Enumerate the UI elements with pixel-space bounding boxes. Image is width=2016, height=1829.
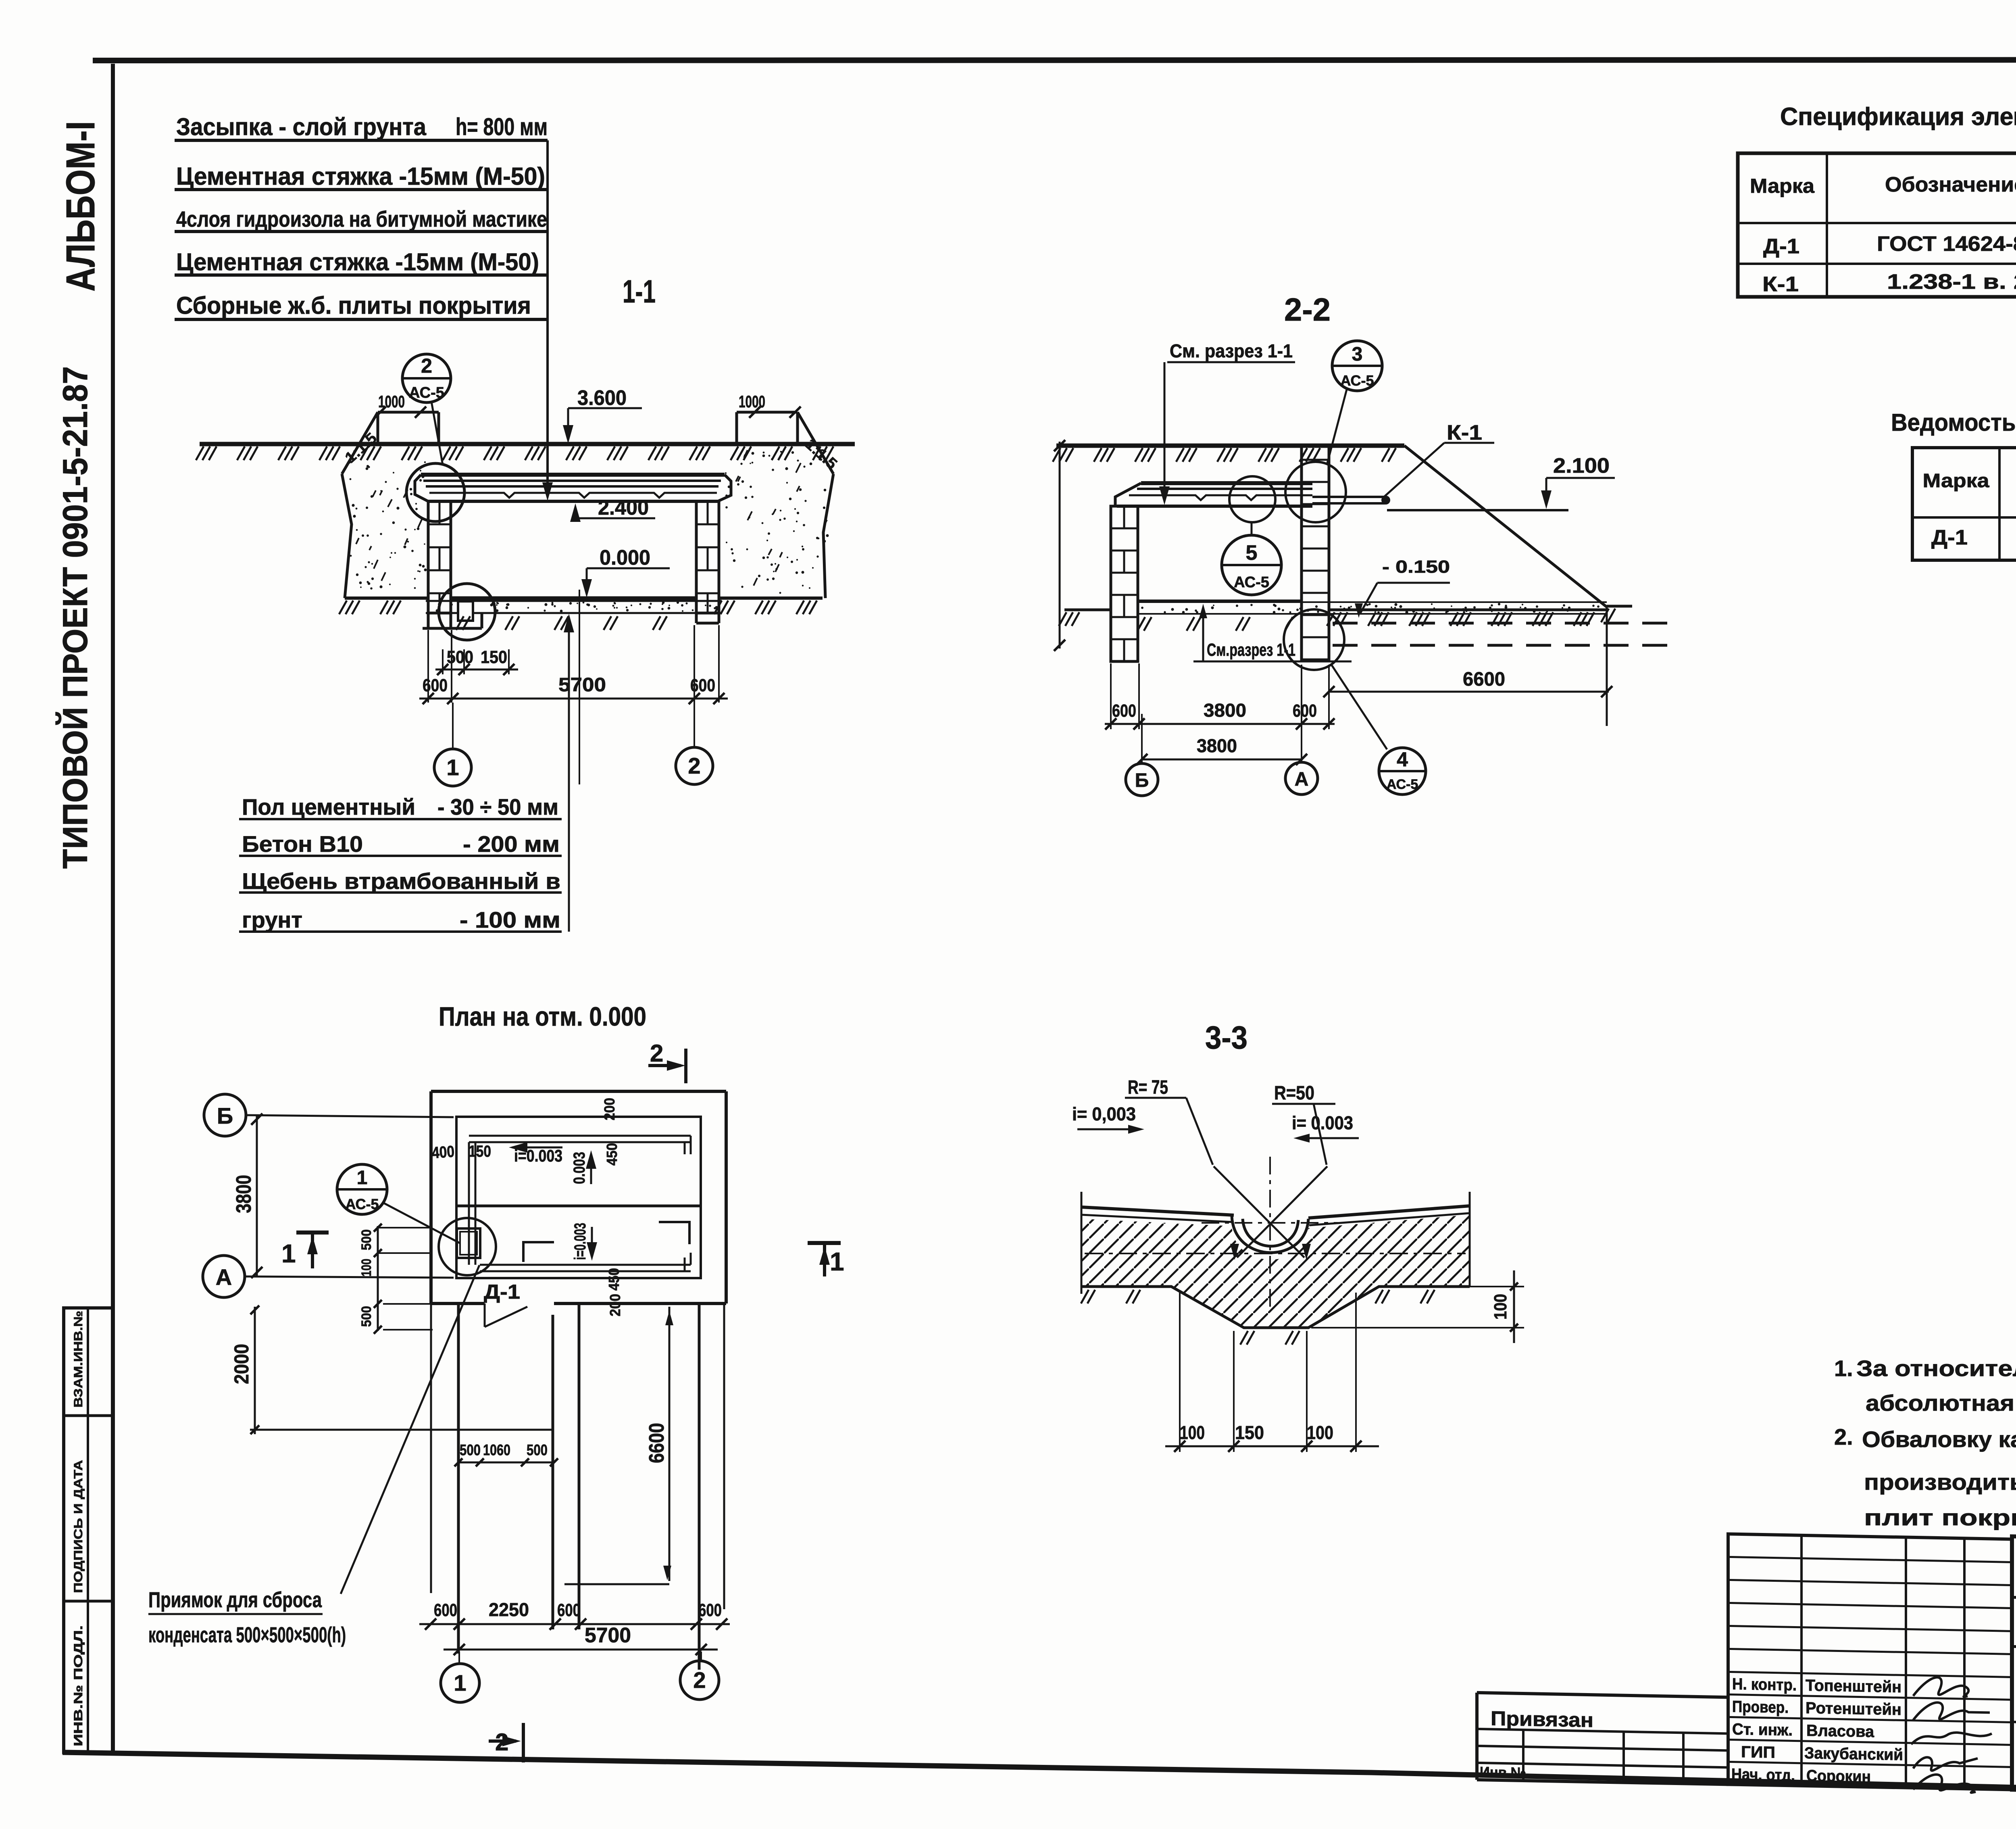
svg-text:Н. контр.: Н. контр. bbox=[1732, 1675, 1797, 1694]
svg-text:- 0.150: - 0.150 bbox=[1382, 557, 1450, 577]
section 1-1 right berm with 1000 dim bbox=[737, 411, 798, 414]
svg-text:К-1: К-1 bbox=[1762, 273, 1799, 296]
3-3 channel inner arc bbox=[1243, 1219, 1298, 1246]
plan left dim stack 500-100-500 bbox=[377, 1227, 433, 1228]
svg-text:500: 500 bbox=[359, 1229, 374, 1250]
margin stamp boxes bottom-left bbox=[64, 1308, 113, 1752]
svg-text:1-1: 1-1 bbox=[623, 273, 656, 309]
plan axis circle 2 bbox=[700, 1652, 702, 1662]
section 1-1 left berm with 1000 dim bbox=[378, 411, 439, 414]
3-3 bottom dims 100-150-100 bbox=[1085, 1253, 1466, 1254]
svg-text:А: А bbox=[216, 1264, 232, 1290]
plan axis circle 1 bbox=[458, 1652, 460, 1664]
svg-text:Д-1: Д-1 bbox=[484, 1281, 520, 1303]
svg-text:500: 500 bbox=[527, 1442, 548, 1459]
section 1-1 floor slab band bbox=[426, 600, 722, 602]
plan sump pit bbox=[457, 1228, 480, 1258]
svg-text:плит покрытия.: плит покрытия. bbox=[1864, 1505, 2016, 1530]
2-2 canopy K-1 bbox=[1312, 496, 1385, 498]
svg-text:За относительную: За относительную bbox=[1856, 1356, 2016, 1381]
svg-text:Ведомость проемов дверей: Ведомость проемов дверей bbox=[1891, 409, 2016, 436]
svg-text:450: 450 bbox=[606, 1268, 622, 1291]
2-2 outside grade left bbox=[1064, 609, 1110, 611]
svg-text:Д-1: Д-1 bbox=[1931, 526, 1968, 549]
plan inner wall faces bbox=[456, 1117, 701, 1278]
svg-text:Обваловку камеры фильтров: Обваловку камеры фильтров - поглотителей bbox=[1862, 1426, 2016, 1452]
plan corner mark lower-left bbox=[523, 1242, 554, 1262]
svg-text:150: 150 bbox=[481, 647, 507, 667]
svg-text:400: 400 bbox=[431, 1143, 455, 1162]
section 1-1 soil speckles left bbox=[403, 545, 406, 548]
callout leader vertical line bbox=[546, 140, 549, 495]
plan axis A circle bbox=[203, 1255, 245, 1297]
2-2 slope toe vertical bbox=[1606, 607, 1608, 726]
svg-text:абсолютная отм.: абсолютная отм. bbox=[1866, 1390, 2016, 1416]
2-2 level line 2.100 bbox=[1387, 509, 1568, 511]
3-3 right slab top bbox=[1308, 1206, 1470, 1218]
svg-text:3: 3 bbox=[1352, 344, 1363, 365]
section 1-1 roof slab bbox=[421, 473, 725, 477]
2-2 axis circle A bbox=[1285, 762, 1318, 795]
plan bottom dim row 600-2250-600-600 bbox=[419, 1623, 730, 1625]
svg-text:- 30 ÷ 50 мм: - 30 ÷ 50 мм bbox=[437, 794, 558, 820]
dim row 500-150 bbox=[442, 649, 444, 674]
2-2 embankment slope line bbox=[1404, 446, 1607, 607]
svg-text:ПОДПИСЬ И ДАТА: ПОДПИСЬ И ДАТА bbox=[72, 1460, 85, 1593]
svg-text:5700: 5700 bbox=[558, 674, 606, 696]
svg-text:600: 600 bbox=[1112, 701, 1136, 721]
svg-text:450: 450 bbox=[604, 1143, 620, 1166]
svg-text:2000: 2000 bbox=[230, 1344, 253, 1384]
detail circle 3 target at wall top bbox=[1285, 462, 1346, 522]
svg-text:600: 600 bbox=[557, 1600, 581, 1620]
floor list leader bbox=[568, 617, 570, 932]
svg-text:1.: 1. bbox=[1834, 1356, 1853, 1381]
section 1-1 soil edge left bbox=[342, 474, 352, 598]
plan channel top bbox=[469, 1135, 691, 1137]
2-2 buried slab dashed lines bbox=[1333, 622, 1673, 625]
detail circle at roof corner bbox=[406, 463, 464, 521]
sump note leader bbox=[341, 1265, 479, 1594]
svg-text:Закубанский: Закубанский bbox=[1804, 1744, 1903, 1764]
detail circle at footing bbox=[439, 584, 495, 640]
svg-text:Топенштейн: Топенштейн bbox=[1806, 1677, 1901, 1696]
svg-text:АС-5: АС-5 bbox=[1234, 574, 1269, 591]
plan channel left riser bbox=[468, 1142, 470, 1265]
svg-text:2.400: 2.400 bbox=[598, 496, 649, 519]
signatures cursive bbox=[1913, 1677, 1968, 1697]
svg-text:А: А bbox=[1295, 769, 1309, 790]
svg-text:К-1: К-1 bbox=[1447, 421, 1482, 444]
svg-text:1: 1 bbox=[281, 1239, 296, 1268]
plan corner mark lower-right bbox=[659, 1222, 689, 1244]
svg-text:i=0.003: i=0.003 bbox=[571, 1223, 589, 1260]
svg-text:1: 1 bbox=[446, 755, 459, 780]
svg-text:100: 100 bbox=[359, 1259, 374, 1276]
2-2 interior floor bbox=[1138, 600, 1302, 603]
svg-text:0.000: 0.000 bbox=[600, 546, 650, 569]
svg-text:150: 150 bbox=[1235, 1422, 1264, 1443]
plan sump detail circle bbox=[439, 1218, 496, 1275]
sheet frame top border bbox=[93, 60, 2016, 60]
svg-text:1: 1 bbox=[357, 1167, 368, 1189]
detail mark 1/AC-5 on plan bbox=[337, 1164, 387, 1214]
section 1-1 soil edge right bbox=[823, 474, 833, 598]
svg-text:Б: Б bbox=[217, 1103, 233, 1128]
svg-text:Засыпка - слой грунта: Засыпка - слой грунта bbox=[176, 113, 427, 140]
2-2 floor slab band bbox=[1138, 601, 1607, 603]
svg-text:150: 150 bbox=[469, 1143, 491, 1160]
svg-text:- 200 мм: - 200 мм bbox=[463, 831, 560, 857]
section 1-1 right footing bbox=[695, 613, 698, 623]
svg-text:АС-5: АС-5 bbox=[1387, 777, 1418, 792]
svg-text:ГОСТ 14624-84: ГОСТ 14624-84 bbox=[1877, 232, 2016, 256]
svg-text:Нач. отд.: Нач. отд. bbox=[1731, 1766, 1795, 1785]
svg-text:600: 600 bbox=[1293, 701, 1317, 721]
plan axis B circle bbox=[204, 1094, 246, 1136]
plan section mark 1 left bbox=[296, 1230, 329, 1235]
dim row 600-5700-600 bbox=[427, 630, 429, 703]
svg-text:- 100 мм: - 100 мм bbox=[460, 907, 560, 932]
svg-text:3800: 3800 bbox=[1204, 700, 1246, 721]
svg-text:2: 2 bbox=[693, 1667, 706, 1693]
svg-text:Обозначение: Обозначение bbox=[1885, 173, 2016, 196]
3-3 hatch fill area bbox=[1081, 1215, 1470, 1328]
svg-text:600: 600 bbox=[698, 1600, 722, 1620]
svg-text:АС-5: АС-5 bbox=[1340, 372, 1374, 389]
2-2 subfloor hatch bbox=[1137, 617, 1145, 631]
detail circle 4 target at wall base bbox=[1284, 609, 1344, 670]
svg-text:Ротенштейн: Ротенштейн bbox=[1806, 1699, 1901, 1718]
svg-text:3-3: 3-3 bbox=[1205, 1020, 1248, 1055]
plan section mark 1 right bbox=[808, 1241, 841, 1245]
2-2 axis dim 3800 bbox=[1141, 714, 1143, 762]
detail mark 3/AC-5 bbox=[1332, 341, 1382, 391]
svg-text:Б: Б bbox=[1135, 770, 1149, 791]
svg-text:АС-5: АС-5 bbox=[409, 384, 444, 401]
svg-text:2: 2 bbox=[421, 355, 432, 377]
svg-text:ИНВ.№ ПОДЛ.: ИНВ.№ ПОДЛ. bbox=[72, 1625, 85, 1746]
svg-text:5: 5 bbox=[1246, 541, 1258, 565]
svg-text:Цементная стяжка -15мм (М-50): Цементная стяжка -15мм (М-50) bbox=[176, 248, 539, 275]
plan corridor walls bbox=[457, 1303, 460, 1654]
door table frame bbox=[1912, 448, 2016, 560]
svg-text:Цементная стяжка -15мм (М-50): Цементная стяжка -15мм (М-50) bbox=[176, 163, 545, 190]
svg-text:3.600: 3.600 bbox=[577, 386, 627, 410]
axis circle 2 section 1-1 bbox=[694, 703, 695, 747]
svg-text:6600: 6600 bbox=[1463, 669, 1505, 690]
plan outer walls bbox=[431, 1090, 726, 1093]
3-3 centre crosshair bbox=[1269, 1157, 1271, 1312]
svg-text:6600: 6600 bbox=[645, 1423, 669, 1463]
svg-text:i= 0,003: i= 0,003 bbox=[1072, 1103, 1136, 1124]
3-3 right edge bar bbox=[1469, 1192, 1471, 1287]
section 1-1 centre line bbox=[579, 590, 580, 784]
svg-text:2250: 2250 bbox=[489, 1599, 529, 1620]
svg-text:Марка: Марка bbox=[1923, 470, 1989, 492]
svg-text:2-2: 2-2 bbox=[1284, 292, 1331, 327]
svg-text:конденсата 500×500×500(h): конденсата 500×500×500(h) bbox=[148, 1623, 346, 1647]
svg-text:1.238-1 в. 2: 1.238-1 в. 2 bbox=[1887, 270, 2016, 294]
svg-text:См. разрез 1-1: См. разрез 1-1 bbox=[1170, 340, 1293, 361]
svg-text:2.100: 2.100 bbox=[1553, 454, 1610, 478]
svg-text:1060: 1060 bbox=[483, 1442, 510, 1459]
plan dim row 500-1060-500 bbox=[458, 1462, 554, 1464]
svg-text:100: 100 bbox=[1491, 1294, 1510, 1320]
sheet frame bottom border bbox=[62, 1752, 2016, 1800]
svg-text:Д-1: Д-1 bbox=[1763, 235, 1799, 258]
detail mark 5/AC-5 bbox=[1251, 522, 1253, 536]
3-3 left edge bar bbox=[1081, 1192, 1083, 1294]
3-3 left slab top bbox=[1081, 1207, 1234, 1215]
3-3 dim 100 right bbox=[1383, 1286, 1524, 1287]
svg-text:ТИПОВОЙ ПРОЕКТ 0901-5-21.87: ТИПОВОЙ ПРОЕКТ 0901-5-21.87 bbox=[56, 366, 95, 869]
3-3 radius diagonal left bbox=[1214, 1166, 1304, 1258]
section 1-1 right wall brick bbox=[696, 501, 719, 613]
svg-text:Привязан: Привязан bbox=[1491, 1707, 1593, 1732]
svg-text:Щебень втрамбованный в: Щебень втрамбованный в bbox=[242, 868, 560, 894]
plan channel bottom bbox=[480, 1264, 691, 1266]
section 1-1 ground line bbox=[200, 442, 855, 446]
3-3 channel inner void bbox=[1243, 1223, 1298, 1249]
svg-text:Спецификация элементов зап: Спецификация элементов заполнения проемо… bbox=[1780, 103, 2016, 131]
plan dim 6600 vertical bbox=[669, 1307, 671, 1581]
svg-text:0.003: 0.003 bbox=[571, 1152, 588, 1184]
plan dim 2000 bbox=[254, 1307, 256, 1434]
sheet frame left border bbox=[111, 64, 115, 1754]
svg-text:600: 600 bbox=[423, 676, 448, 695]
2-2 right wall brick bbox=[1300, 448, 1303, 661]
svg-text:3800: 3800 bbox=[232, 1175, 256, 1213]
svg-text:100: 100 bbox=[1307, 1422, 1333, 1443]
svg-text:R= 75: R= 75 bbox=[1128, 1077, 1168, 1098]
main stamp frame bbox=[2012, 1536, 2016, 1799]
svg-text:500: 500 bbox=[359, 1306, 374, 1327]
svg-text:5700: 5700 bbox=[585, 1624, 631, 1647]
section 1-1 left wall brick bbox=[428, 501, 451, 613]
svg-text:200: 200 bbox=[607, 1294, 623, 1316]
axis circle 1 section 1-1 bbox=[452, 703, 454, 749]
3-3 channel outer arc bbox=[1232, 1216, 1308, 1253]
signature table frame bbox=[1728, 1534, 2012, 1789]
svg-text:производить после устано: производить после установки и крепления bbox=[1864, 1469, 2016, 1495]
plan mid ridge line bbox=[456, 1205, 701, 1208]
svg-text:1: 1 bbox=[454, 1670, 466, 1696]
section 1-1 subfloor hatch bbox=[456, 616, 464, 630]
svg-text:Сборные ж.б. плиты покрытия: Сборные ж.б. плиты покрытия bbox=[176, 292, 531, 319]
2-2 axis circle B bbox=[1126, 763, 1158, 796]
svg-text:АЛЬБОМ-I: АЛЬБОМ-I bbox=[58, 121, 103, 292]
svg-text:Власова: Власова bbox=[1806, 1722, 1874, 1741]
svg-text:600: 600 bbox=[690, 676, 715, 695]
svg-text:Марка: Марка bbox=[1750, 175, 1815, 197]
svg-text:100: 100 bbox=[1180, 1422, 1205, 1443]
spec table frame bbox=[1738, 153, 2016, 297]
svg-text:Приямок для сброса: Приямок для сброса bbox=[148, 1588, 322, 1612]
2-2 ground line bbox=[1056, 444, 1404, 448]
section 1-1 outside grade right bbox=[719, 596, 823, 600]
privyazan table bbox=[1477, 1693, 1728, 1698]
svg-text:500: 500 bbox=[460, 1442, 481, 1459]
section 1-1 left footing bbox=[427, 613, 430, 628]
svg-text:4слоя гидроизола на битумной м: 4слоя гидроизола на битумной мастике bbox=[176, 206, 547, 231]
svg-text:4: 4 bbox=[1397, 748, 1408, 771]
section 1-1 soil speckles right bbox=[818, 538, 820, 540]
svg-text:600: 600 bbox=[434, 1600, 457, 1620]
svg-text:Ст. инж.: Ст. инж. bbox=[1732, 1721, 1793, 1739]
svg-text:2: 2 bbox=[650, 1040, 663, 1067]
svg-text:Инв.№: Инв.№ bbox=[1480, 1764, 1526, 1782]
2-2 left wall brick bbox=[1111, 506, 1138, 661]
svg-text:грунт: грунт bbox=[242, 907, 302, 932]
section 1-1 outside grade left bbox=[345, 596, 428, 600]
3-3 radius diagonal right bbox=[1237, 1166, 1327, 1258]
svg-text:3800: 3800 bbox=[1197, 735, 1237, 756]
2-2 left height extension bbox=[1059, 442, 1061, 649]
svg-text:2.: 2. bbox=[1834, 1424, 1853, 1449]
section 1-1 interior floor line bbox=[451, 596, 696, 600]
svg-text:h= 800 мм: h= 800 мм bbox=[456, 113, 548, 140]
3-3 ground ticks below base bbox=[1081, 1290, 1089, 1303]
svg-text:i= 0.003: i= 0.003 bbox=[1292, 1112, 1353, 1133]
2-2 outside grade right bbox=[1329, 609, 1607, 611]
detail mark 4/AC-5 bbox=[1379, 748, 1426, 795]
svg-text:1000: 1000 bbox=[739, 392, 765, 411]
svg-text:Бетон В10: Бетон В10 bbox=[242, 831, 363, 857]
plan bottom dim 5700 bbox=[444, 1649, 718, 1651]
3-3 base bottom profile bbox=[1081, 1287, 1470, 1328]
2-2 roof slab bbox=[1141, 481, 1312, 485]
svg-text:ВЗАМ.ИНВ.№: ВЗАМ.ИНВ.№ bbox=[72, 1311, 85, 1408]
svg-text:План на отм. 0.000: План на отм. 0.000 bbox=[439, 1001, 646, 1031]
svg-text:500: 500 bbox=[447, 647, 473, 667]
svg-text:Провер.: Провер. bbox=[1732, 1698, 1789, 1717]
section 1-1 ground hatch bbox=[196, 446, 204, 460]
detail mark 2/AC-5 bbox=[402, 354, 451, 403]
svg-text:2: 2 bbox=[688, 753, 700, 778]
svg-text:ГИП: ГИП bbox=[1741, 1743, 1775, 1762]
svg-text:Пол цементный: Пол цементный bbox=[242, 794, 415, 820]
plan axis dim 3800 bbox=[256, 1115, 258, 1276]
svg-text:Сорокин: Сорокин bbox=[1806, 1767, 1871, 1786]
detail circle 5 target bbox=[1229, 476, 1275, 522]
svg-text:200: 200 bbox=[601, 1098, 618, 1120]
svg-text:1000: 1000 bbox=[378, 392, 405, 411]
2-2 dim row 600-3800-600-6600 bbox=[1110, 663, 1112, 729]
svg-text:См.разрез 1-1: См.разрез 1-1 bbox=[1207, 640, 1295, 660]
svg-text:R=50: R=50 bbox=[1274, 1082, 1314, 1104]
svg-text:1: 1 bbox=[830, 1247, 844, 1276]
svg-text:АС-5: АС-5 bbox=[345, 1196, 379, 1212]
